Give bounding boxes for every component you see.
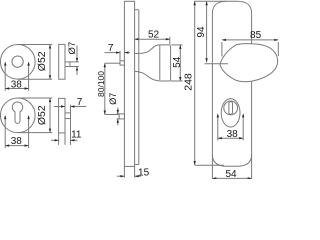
rosette B outer circle (0, 98, 35, 133)
cylinder boss (119, 114, 124, 119)
dim 80/100 line (104, 63, 106, 114)
dim 94 line (206, 1, 208, 62)
dim 15 arrows (117, 175, 125, 177)
svg-text:38: 38 (11, 136, 23, 147)
dim Ø7 (plate) extensions (117, 113, 120, 115)
dim Ø52 (A) line (49, 44, 51, 79)
dim Ø7 (side A) extension bottom (70, 66, 79, 68)
svg-text:52: 52 (148, 30, 160, 41)
svg-text:15: 15 (138, 167, 150, 178)
svg-text:Ø7: Ø7 (108, 93, 118, 105)
svg-text:38: 38 (227, 129, 239, 140)
dim 11 arrows (51, 139, 59, 141)
security plate left edge (211, 14, 213, 155)
dim Ø52 (B) line (49, 98, 51, 133)
rosette A inner hole (12, 56, 23, 67)
dim Ø52 (A) extension top (18, 43, 52, 45)
svg-text:Ø7: Ø7 (67, 42, 78, 55)
svg-text:248: 248 (183, 73, 195, 91)
dim 7 (plate) extension (119, 51, 121, 61)
dim Ø7 (side A) extension top (70, 61, 79, 63)
svg-text:Ø52: Ø52 (36, 51, 48, 71)
screw mark C left (217, 114, 219, 140)
dim 38 (A) line (5, 88, 28, 90)
dim 54 (plate) line (212, 177, 251, 179)
dim 7 (side B) arrows (54, 106, 65, 108)
dim 52 line (135, 38, 170, 40)
screw mark B right (28, 116, 30, 148)
dim 38 (C) line (218, 137, 243, 139)
svg-text:54: 54 (225, 169, 237, 179)
dim 7 (plate) arrows (105, 52, 121, 54)
svg-text:38: 38 (11, 79, 23, 90)
dim 54 (knob) leaders (171, 44, 182, 46)
dim Ø52 (B) extension top (18, 97, 52, 99)
dim Ø52 (B) extension bottom (18, 132, 52, 134)
dim Ø7 (plate) arrows (117, 108, 119, 114)
svg-text:11: 11 (71, 130, 82, 141)
rosette A outer circle (0, 44, 35, 79)
svg-text:Ø52: Ø52 (36, 105, 48, 125)
screw mark B left (4, 116, 6, 148)
dim 38 (B) line (5, 145, 28, 147)
screw mark A left (4, 63, 6, 91)
side view A pin (65, 62, 70, 67)
dim 248 line (194, 1, 196, 165)
svg-text:7: 7 (108, 43, 114, 54)
security plate bottom arc (212, 155, 251, 167)
security plate top arc (212, 1, 251, 13)
dim Ø52 (A) extension bottom (18, 78, 52, 80)
dim 7 (side B) extension (70, 105, 72, 113)
svg-text:94: 94 (196, 26, 207, 38)
rosette B keyhole (12, 102, 22, 123)
knob front view (220, 44, 278, 82)
cylinder key slot (229, 102, 233, 115)
dim Ø52 (A) arrow up (49, 44, 51, 48)
door surface line (135, 10, 139, 165)
backplate side view (124, 1, 134, 166)
dim 248 leader (195, 164, 224, 166)
screw mark A right (28, 63, 30, 91)
svg-text:85: 85 (250, 30, 262, 41)
dim 52 extension (169, 37, 171, 45)
side view B collar (65, 113, 71, 119)
spindle boss (120, 61, 125, 65)
backplate side extension lines (123, 166, 125, 177)
dim 54 (plate) extensions (211, 155, 213, 180)
knob profile (135, 45, 171, 81)
screw mark C right (242, 114, 244, 140)
knob cap edge (159, 45, 161, 80)
dim 54 (knob) line (179, 45, 181, 81)
dim 94 leader (204, 63, 228, 65)
svg-text:54: 54 (172, 56, 183, 68)
dim 11 extension lines (58, 133, 60, 145)
side view A body (59, 44, 65, 79)
dim 85 line (222, 39, 278, 41)
svg-text:7: 7 (77, 97, 83, 108)
side view B body (59, 98, 65, 132)
dim Ø7 (side A) arrows (76, 46, 78, 62)
dim Ø52 (A) arrow down (49, 75, 51, 79)
cylinder body (224, 101, 238, 115)
dim 80/100 leaders (105, 62, 120, 64)
dim 85 extensions (221, 42, 223, 57)
svg-text:80/100: 80/100 (96, 71, 106, 97)
security plate right edge (251, 14, 253, 155)
cylinder rosette oval (221, 99, 240, 127)
top leader line (194, 0, 226, 2)
